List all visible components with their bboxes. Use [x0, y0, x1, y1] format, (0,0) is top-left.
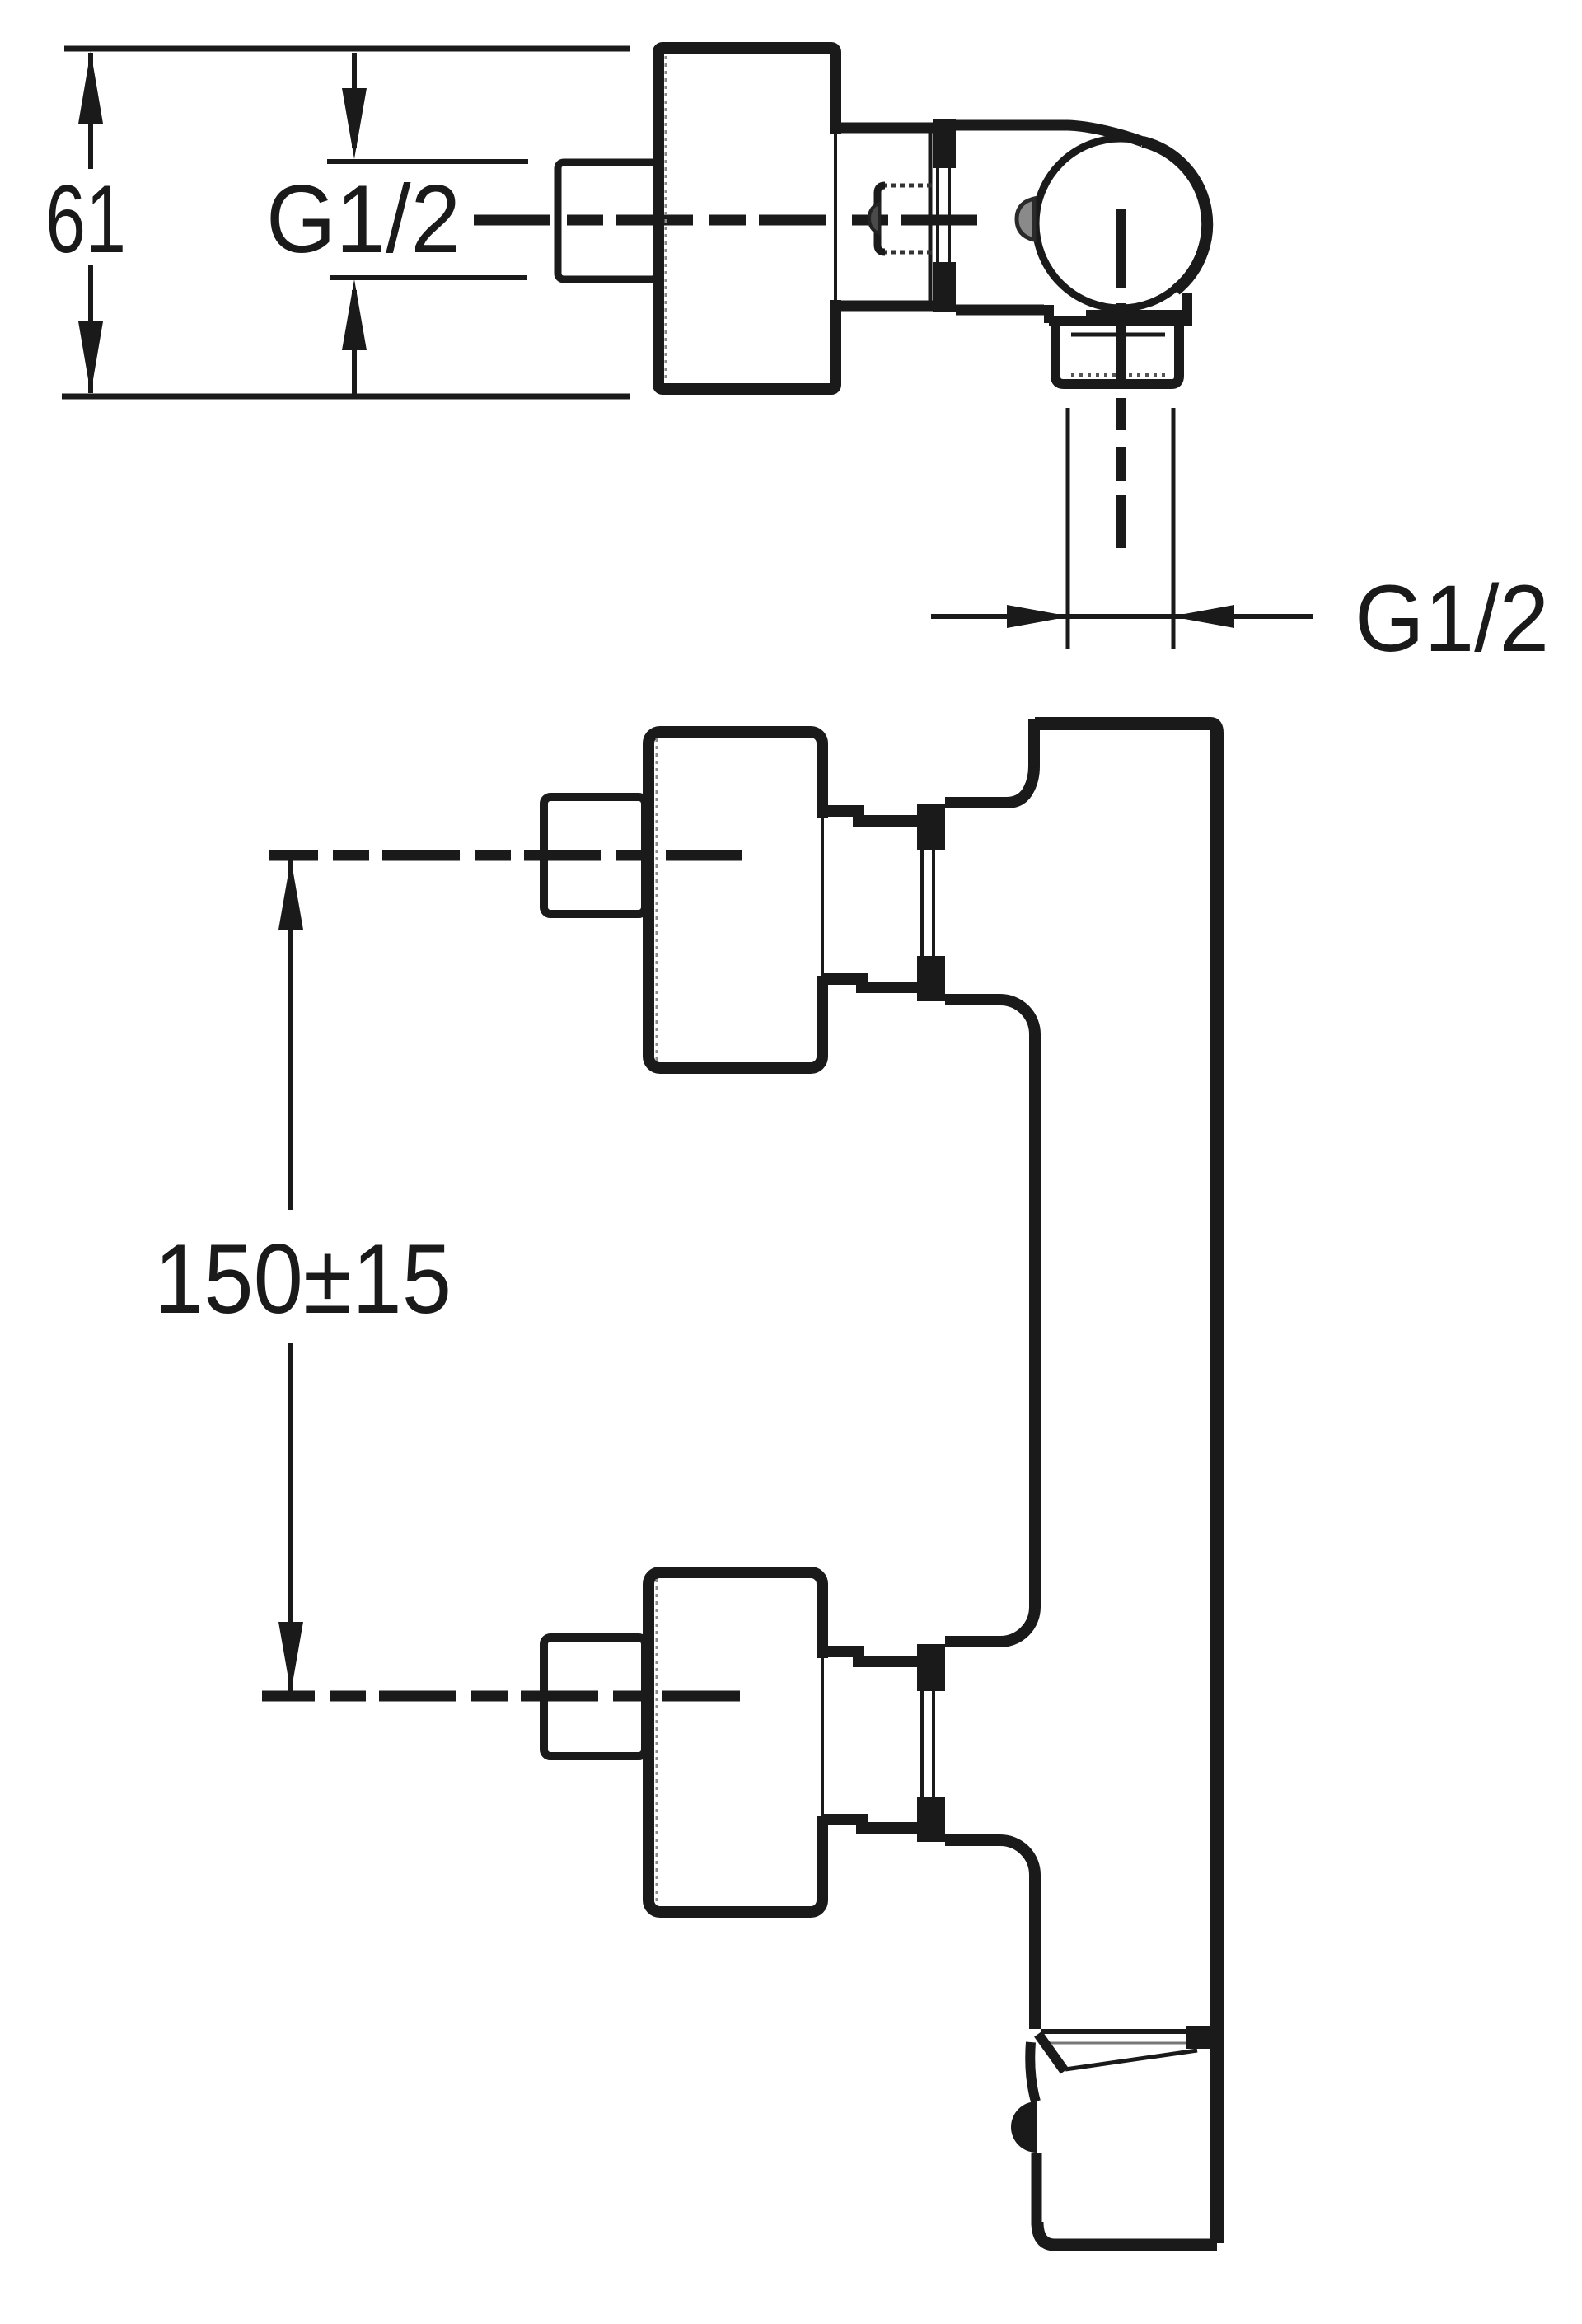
arrow down to pipe top — [342, 88, 367, 159]
merge circle bottom to cup — [1086, 310, 1183, 323]
flange block upper top view — [933, 119, 956, 168]
outlet left edge below bump — [1032, 2153, 1042, 2225]
outlet dotted thread line — [1071, 373, 1170, 377]
knurl dots lower knob — [656, 1579, 658, 1905]
arrow up 61 — [78, 51, 103, 124]
svg-text:61: 61 — [45, 165, 126, 273]
inlet pipe rect top view — [558, 162, 658, 279]
neck right thin edge — [929, 133, 933, 301]
upper flange block bottom — [917, 956, 945, 1001]
lower knob right thin edge — [821, 1656, 824, 1818]
outlet stub right — [1182, 293, 1192, 321]
extension line pipe top — [327, 159, 528, 164]
centerline horizontal top view — [474, 215, 977, 226]
mid left edge between assemblies — [945, 1000, 1035, 1642]
lower flange thin verticals — [920, 1691, 924, 1797]
centerline upper assembly — [269, 850, 742, 861]
lower neck bottom edge — [821, 1820, 921, 1828]
body top edge top view — [956, 120, 1069, 131]
knob right edge thin segment — [834, 133, 837, 302]
circle left bump gray — [1017, 199, 1034, 240]
lower neck top edge — [821, 1652, 921, 1661]
vertical centerline circle/outlet — [1116, 209, 1126, 288]
flange block lower top view — [933, 262, 956, 312]
mask upper knob right edge — [814, 818, 832, 976]
outlet left edge above bump — [1030, 2042, 1036, 2101]
lower inlet front — [544, 1638, 645, 1756]
mask knob right edge middle — [826, 134, 845, 300]
cartridge bottom dotted — [882, 251, 935, 255]
knurl dots top view knob — [665, 56, 667, 381]
knob rect top view — [658, 48, 835, 389]
cartridge bump — [869, 204, 879, 233]
lower flange block top — [917, 1644, 945, 1691]
body step down to outlet — [1044, 305, 1054, 323]
cartridge left edge — [878, 185, 885, 252]
seam right blob — [1186, 2026, 1217, 2049]
lower flange block bottom — [917, 1797, 945, 1842]
upper neck bottom edge — [821, 979, 921, 987]
lower ledge below lower assembly — [945, 1840, 1035, 2029]
dimension line 150 lower — [288, 1343, 293, 1691]
dimension arrow line upper G1/2 — [352, 53, 357, 148]
dimension line 61 lower segment — [88, 265, 93, 393]
upper flange block top — [917, 804, 945, 850]
dimension line 150 upper — [288, 860, 293, 1210]
upper inlet front — [544, 797, 645, 914]
pipe extension line right — [1172, 408, 1176, 649]
cartridge top dotted — [882, 184, 935, 188]
outlet taper line — [1065, 2050, 1197, 2069]
svg-text:150±15: 150±15 — [154, 1224, 452, 1334]
extension line pipe bottom — [330, 275, 527, 280]
upper knob right thin edge — [821, 816, 824, 977]
outlet bottom edge — [1037, 2222, 1217, 2245]
dimension line 61 upper segment — [88, 53, 93, 169]
neck bottom edge top view — [835, 301, 934, 312]
outlet cup top edge — [1049, 316, 1192, 326]
svg-text:G1/2: G1/2 — [266, 165, 461, 273]
seam line outlet — [1041, 2029, 1201, 2034]
upper flange thin verticals — [920, 850, 924, 956]
centerline lower assembly — [262, 1691, 743, 1702]
knurl dots upper knob — [656, 738, 658, 1061]
extension line bottom (knob bottom, dim 61) — [62, 394, 630, 400]
neck top edge top view — [835, 123, 934, 134]
outlet cup outline — [1055, 321, 1179, 384]
arrow up 150 — [278, 859, 303, 930]
arrow down 150 — [278, 1622, 303, 1693]
pipe extension line left — [1066, 408, 1070, 649]
mask lower knob right edge — [814, 1658, 832, 1816]
body bottom edge top view — [956, 305, 1044, 316]
arrow up to pipe bottom — [342, 279, 367, 350]
heavy arc circle lower right — [1143, 142, 1207, 290]
dimension line bottom G1/2 — [931, 614, 1313, 619]
body cap top and right edge — [1035, 724, 1217, 2243]
outlet inner line — [1071, 333, 1165, 337]
flange thin verticals top view — [936, 168, 939, 262]
upper neck top edge — [821, 811, 921, 821]
extension line top (knob top, dim 61) — [64, 46, 630, 52]
dimension arrow line lower G1/2 — [352, 290, 357, 396]
arrow right to pipe left — [1007, 605, 1070, 628]
upper knob front — [648, 732, 822, 1068]
arrow down 61 — [78, 321, 103, 394]
lower knob front — [648, 1572, 822, 1912]
outlet notch diagonal — [1038, 2034, 1065, 2071]
svg-text:G1/2: G1/2 — [1355, 566, 1549, 672]
arrow left to pipe right — [1171, 605, 1234, 628]
outlet ball bump — [1011, 2101, 1037, 2153]
diverter circle thin — [1036, 138, 1205, 308]
upper ledge with fillet to cap — [945, 719, 1034, 803]
heavy arc body-to-circle top right — [1068, 125, 1143, 142]
